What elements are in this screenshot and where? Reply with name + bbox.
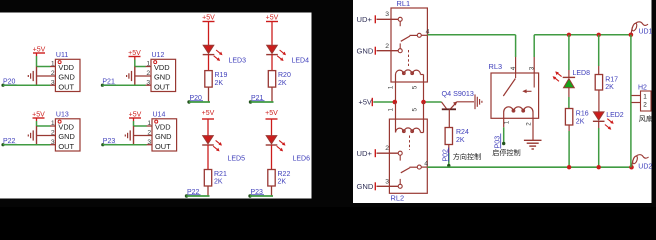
- wire top rail to R17: [598, 35, 600, 75]
- wire RL1 pin4 to RL3 pin4 (top net): [427, 35, 515, 73]
- svg-text:R24: R24: [456, 129, 469, 136]
- RL1 mechanical link (dashed): [408, 50, 410, 66]
- RL2 switch arm and common pin4: [401, 165, 428, 173]
- svg-text:R16: R16: [576, 111, 589, 118]
- svg-text:LED8: LED8: [573, 70, 591, 77]
- wire LED6 to R22: [271, 145, 273, 170]
- svg-text:2K: 2K: [576, 118, 585, 125]
- wire LED5 to R21: [207, 145, 209, 170]
- svg-text:2: 2: [146, 70, 150, 77]
- junction node (R17 branch): [597, 33, 601, 37]
- wire R16 to bottom rail: [568, 125, 570, 167]
- svg-text:OUT: OUT: [58, 83, 74, 92]
- svg-text:2K: 2K: [456, 137, 465, 144]
- svg-text:RL3: RL3: [489, 62, 503, 71]
- node P20: [1, 79, 16, 87]
- wire P21 to pin3 of U12: [102, 84, 151, 86]
- svg-text:OUT: OUT: [154, 83, 170, 92]
- wire GND pin2 of U13: [37, 135, 56, 137]
- RL2 mechanical link (dashed): [409, 136, 411, 151]
- svg-text:LED6: LED6: [293, 156, 311, 163]
- resistor R21 2K: [204, 170, 227, 187]
- svg-text:2K: 2K: [605, 84, 614, 91]
- svg-text:U13: U13: [56, 111, 69, 118]
- svg-text:LED3: LED3: [229, 58, 247, 65]
- wire +5V to pin1 of U14: [134, 121, 153, 126]
- wire +5V to pin1 of U12: [135, 60, 151, 67]
- node P22: [1, 138, 16, 146]
- power +5V (U14): [129, 111, 142, 121]
- wire GND to RL2 pin3: [377, 185, 399, 187]
- svg-text:+5V: +5V: [202, 14, 215, 21]
- junction node UD2 / H2 pin2: [629, 165, 634, 170]
- svg-text:5: 5: [412, 85, 419, 89]
- wire bottom rail (RL2 pin4 to UD2): [427, 166, 631, 168]
- svg-text:LED5: LED5: [228, 156, 246, 163]
- svg-text:UD1: UD1: [639, 28, 653, 35]
- svg-text:1: 1: [147, 120, 151, 127]
- node P21: [249, 95, 265, 104]
- wire LED8 to R16: [568, 88, 570, 109]
- pin numbers 1 2 3 of U13: [51, 120, 55, 146]
- svg-text:R20: R20: [278, 72, 291, 79]
- microphone/sensor symbol at U12: [127, 67, 135, 86]
- wire: [250, 195, 273, 197]
- svg-text:1: 1: [146, 61, 150, 68]
- svg-text:RL2: RL2: [391, 194, 405, 203]
- node GND (RL1 pin 2): [357, 46, 376, 55]
- node UD+ (RL1 pin 3): [357, 15, 376, 24]
- LED LED6: [266, 136, 310, 163]
- svg-text:VDD: VDD: [58, 63, 74, 72]
- svg-text:+5V: +5V: [202, 110, 215, 117]
- wire +5V to LED6: [271, 119, 273, 136]
- svg-text:1: 1: [388, 85, 395, 89]
- svg-text:3: 3: [51, 79, 55, 86]
- off-page connector UD2: [632, 155, 653, 171]
- wire: [251, 101, 274, 103]
- svg-text:VDD: VDD: [154, 63, 170, 72]
- junction node (+5V / RL1 pin1 / RL2 pin1): [393, 100, 398, 105]
- node P23: [248, 189, 264, 198]
- ground (RL3 pin2): [524, 140, 542, 149]
- off-page connector UD1: [631, 22, 652, 36]
- svg-text:3: 3: [51, 139, 55, 146]
- node P23: [101, 138, 116, 146]
- power +5V port (right panel): [359, 98, 373, 107]
- wire RL3 coil pin2 to ground: [532, 112, 534, 140]
- svg-text:3: 3: [385, 11, 389, 18]
- wire +5V to LED4: [271, 22, 273, 46]
- wire GND pin2 of U11: [37, 75, 56, 77]
- resistor R22 2K: [268, 170, 291, 187]
- svg-text:2: 2: [526, 122, 533, 126]
- junction node (RL1 pin5 / RL2 pin5 / Q4): [421, 100, 426, 105]
- node UD+ (RL2 pin 2): [357, 149, 376, 158]
- wire: [189, 101, 210, 103]
- relay RL3: [489, 62, 539, 118]
- RL2 coil: [396, 128, 424, 133]
- svg-text:VDD: VDD: [58, 123, 74, 132]
- svg-text:2K: 2K: [278, 179, 287, 186]
- junction node (R16 / bottom rail): [567, 165, 571, 169]
- wire R19 to P20: [208, 87, 210, 102]
- wire R22 to P23: [271, 186, 273, 196]
- relay RL1: [391, 0, 427, 82]
- resistor R20 2K: [268, 71, 291, 88]
- svg-text:+5V: +5V: [129, 111, 142, 118]
- svg-text:2K: 2K: [214, 179, 223, 186]
- svg-text:OUT: OUT: [58, 142, 74, 151]
- svg-text:OUT: OUT: [155, 142, 171, 151]
- pin numbers 1 2 3 of U11: [51, 61, 55, 87]
- ground (Q4 emitter): [475, 94, 482, 109]
- transistor Q4 S9013: [442, 89, 475, 128]
- wire +5V rail: [373, 101, 394, 103]
- svg-text:3: 3: [385, 178, 389, 185]
- svg-text:1: 1: [643, 93, 647, 100]
- connector H2: [638, 85, 651, 112]
- junction node (LED2 / bottom rail): [597, 165, 601, 169]
- svg-text:P03: P03: [493, 136, 502, 149]
- pin numbers 1 2 3 of U12: [146, 61, 150, 87]
- svg-text:R21: R21: [214, 171, 227, 178]
- svg-text:GND: GND: [58, 73, 74, 82]
- LED LED2: [593, 112, 624, 130]
- svg-text:GND: GND: [154, 73, 170, 82]
- wire RL1 coil pin1 down to +5V rail: [395, 75, 397, 103]
- IC U13: [55, 111, 80, 151]
- RL1 contact pin3: [398, 17, 402, 26]
- wire R20 to P21: [271, 87, 273, 102]
- svg-text:1: 1: [51, 61, 55, 68]
- wire UD+ to RL1 pin3: [377, 18, 399, 20]
- wire RL3 coil pin1 to node P03: [502, 112, 505, 145]
- IC U11: [55, 52, 80, 92]
- svg-text:R17: R17: [605, 76, 618, 83]
- LED LED4: [266, 45, 309, 64]
- svg-text:+5V: +5V: [359, 98, 372, 107]
- svg-text:U12: U12: [152, 52, 165, 59]
- RL1 switch arm and common pin4: [401, 33, 428, 41]
- svg-text:2: 2: [385, 145, 389, 152]
- wire GND to RL1 pin2: [377, 50, 399, 52]
- svg-text:Q4 S9013: Q4 S9013: [442, 89, 474, 98]
- wire H2 pin2 stub: [632, 102, 641, 104]
- wire GND pin2 of U12: [135, 75, 151, 77]
- power +5V (U13): [32, 111, 45, 121]
- svg-text:5: 5: [412, 108, 419, 112]
- svg-text:1: 1: [51, 120, 55, 127]
- svg-text:UD2: UD2: [638, 164, 652, 171]
- svg-text:R19: R19: [215, 72, 228, 79]
- resistor R19 2K: [205, 71, 228, 88]
- microphone/sensor symbol at U13: [28, 126, 36, 145]
- wire P22 to pin3 of U13: [3, 144, 55, 146]
- svg-text:GND: GND: [357, 46, 374, 55]
- LED LED3: [203, 45, 246, 64]
- svg-text:2K: 2K: [215, 80, 224, 87]
- wire RL coil pin5 rail to Q4 base: [424, 101, 442, 103]
- RL1 contact pin2: [398, 43, 402, 52]
- wire R21 to P22: [207, 186, 209, 196]
- svg-text:2: 2: [385, 43, 389, 50]
- svg-text:2: 2: [51, 70, 55, 77]
- microphone/sensor symbol at U11: [28, 67, 36, 86]
- junction node UD1 / H2 pin1: [629, 33, 634, 38]
- svg-text:2K: 2K: [278, 80, 287, 87]
- microphone/sensor symbol at U14: [125, 126, 133, 145]
- wire UD1 node to UD2 node (H2 feed): [630, 35, 632, 167]
- svg-text:1: 1: [504, 120, 511, 124]
- LED LED5: [202, 136, 245, 163]
- power +5V (U11): [33, 47, 46, 57]
- svg-text:3: 3: [147, 139, 151, 146]
- pin numbers 1 2 3 of U14: [147, 120, 151, 146]
- svg-text:2: 2: [51, 130, 55, 137]
- wire +5V to pin1 of U13: [37, 121, 56, 126]
- svg-text:UD+: UD+: [357, 149, 373, 158]
- svg-text:3: 3: [528, 66, 535, 70]
- svg-text:VDD: VDD: [155, 123, 171, 132]
- node P21: [101, 79, 116, 87]
- power +5V (U12): [128, 50, 141, 60]
- svg-text:方向控制: 方向控制: [453, 152, 481, 161]
- wire +5V to LED5: [207, 119, 209, 136]
- right schematic panel background: [353, 0, 652, 203]
- wire R17 to LED2: [598, 90, 600, 112]
- svg-text:U11: U11: [56, 52, 68, 59]
- svg-text:2: 2: [147, 130, 151, 137]
- wire RL1 coil pin5 down: [423, 75, 425, 103]
- power +5V (LED6 column): [265, 110, 278, 119]
- wire R24 to node P02: [447, 145, 450, 168]
- power +5V (LED3 column): [202, 14, 215, 21]
- resistor R17 2K: [595, 75, 618, 92]
- left schematic panel background: [0, 13, 312, 199]
- svg-text:启停控制: 启停控制: [492, 148, 520, 157]
- wire P23 to pin3 of U14: [103, 144, 152, 146]
- svg-text:4: 4: [510, 66, 517, 70]
- node P03: [493, 134, 502, 149]
- wire LED4 to R20: [271, 55, 273, 71]
- wire LED3 to R19: [208, 55, 210, 71]
- svg-text:3: 3: [146, 79, 150, 86]
- junction node (LED8 branch): [567, 33, 571, 37]
- node GND (RL2 pin 3): [357, 182, 376, 191]
- svg-text:+5V: +5V: [266, 14, 279, 21]
- svg-text:风扇: 风扇: [639, 114, 653, 123]
- svg-text:LED4: LED4: [292, 58, 310, 65]
- node P02: [442, 148, 449, 162]
- wire LED2 to bottom rail: [598, 121, 600, 167]
- RL2 contact pin2: [398, 151, 402, 160]
- svg-text:+5V: +5V: [32, 111, 45, 118]
- wire fan net top rail: [534, 34, 631, 36]
- RL3 pin3 wire up to fan net: [533, 35, 535, 73]
- RL3 coil: [504, 107, 533, 112]
- RL2 contact pin3: [398, 179, 402, 188]
- resistor R16 2K: [565, 109, 588, 126]
- svg-text:UD+: UD+: [357, 15, 373, 24]
- wire GND pin2 of U14: [134, 135, 153, 137]
- wire: [187, 195, 210, 197]
- svg-text:RL1: RL1: [397, 0, 411, 8]
- resistor R24 2K: [445, 128, 469, 145]
- IC U14: [152, 111, 177, 151]
- wire RL2 coil pin1 up to +5V rail: [395, 102, 397, 133]
- svg-text:GND: GND: [58, 132, 74, 141]
- node P20: [187, 95, 203, 104]
- power +5V (LED5 column): [202, 110, 215, 119]
- svg-text:2: 2: [643, 101, 647, 108]
- wire +5V to LED3: [208, 22, 210, 46]
- svg-text:GND: GND: [357, 182, 374, 191]
- svg-text:R22: R22: [278, 171, 291, 178]
- wire P20 to pin3 of U11: [3, 84, 55, 86]
- wire RL2 coil pin5 up: [423, 102, 425, 133]
- wire +5V to pin1 of U11: [37, 56, 56, 67]
- node P22: [185, 189, 201, 198]
- RL3 switch arm: [503, 73, 534, 96]
- RL1 coil: [396, 70, 424, 75]
- relay RL2: [389, 119, 427, 203]
- svg-text:H2: H2: [638, 85, 647, 92]
- wire UD+ to RL2 pin2: [377, 152, 399, 154]
- power +5V (LED4 column): [266, 14, 279, 21]
- svg-text:1: 1: [388, 108, 395, 112]
- IC U12: [151, 52, 176, 92]
- LED LED8: [553, 70, 591, 88]
- svg-text:+5V: +5V: [265, 110, 278, 117]
- svg-text:U14: U14: [153, 111, 166, 118]
- wire H2 pin1 stub: [632, 95, 641, 97]
- svg-text:GND: GND: [155, 132, 171, 141]
- wire top rail to LED8: [568, 35, 570, 78]
- svg-text:LED2: LED2: [606, 112, 624, 119]
